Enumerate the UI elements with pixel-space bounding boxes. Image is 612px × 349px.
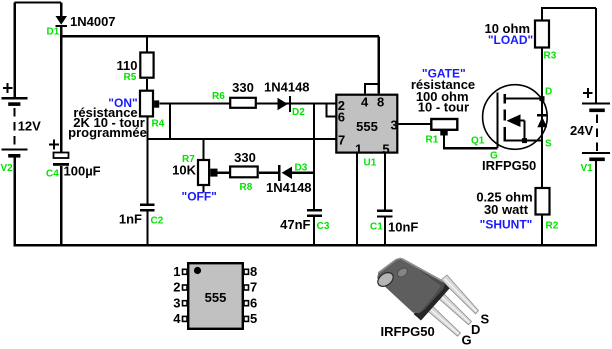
svg-text:R3: R3 [544, 51, 557, 62]
svg-text:3: 3 [173, 295, 180, 310]
svg-text:C1: C1 [370, 222, 383, 233]
wire R5 top lead [146, 36, 148, 52]
svg-text:"SHUNT": "SHUNT" [480, 218, 533, 232]
svg-text:1: 1 [355, 142, 362, 157]
capacitor C2 1nF [140, 205, 154, 211]
diode D3 1N4148 [279, 165, 292, 181]
wire C1 bottom to rail [384, 218, 386, 245]
wire V1 bottom lead [595, 161, 597, 245]
svg-text:555: 555 [356, 119, 378, 134]
resistor R6 330 [230, 98, 256, 108]
wire top-left corner V2 to D1 [15, 3, 62, 99]
svg-text:24V: 24V [570, 123, 593, 138]
wire C4 bottom to ground rail [60, 166, 62, 245]
transistor Q1 IRFPG50 mosfet symbol [483, 85, 548, 150]
resistor R8 330 [230, 167, 258, 178]
svg-text:100µF: 100µF [64, 164, 101, 179]
op-amp U1 555 IC body [336, 95, 397, 153]
svg-text:D: D [471, 322, 480, 337]
wire 555 pin5 to C1 [384, 154, 386, 210]
svg-text:3: 3 [391, 118, 398, 133]
resistor R2 SHUNT [536, 188, 550, 215]
potentiometer R7 10K "OFF" [198, 160, 218, 185]
capacitor C4 100uF polarized [49, 140, 69, 166]
svg-text:6: 6 [338, 110, 345, 125]
wire junction vertical x170 [169, 104, 171, 140]
svg-text:R6: R6 [212, 91, 225, 102]
svg-text:V2: V2 [1, 163, 14, 174]
svg-text:8: 8 [377, 95, 384, 110]
svg-text:2: 2 [173, 280, 180, 295]
svg-text:110: 110 [117, 58, 138, 73]
svg-text:V1: V1 [581, 163, 594, 174]
wire R7 wiper to R8 [218, 172, 230, 174]
wire R4 wiper to 555 pin 2 (y103) [159, 102, 335, 104]
svg-text:7: 7 [250, 280, 257, 295]
svg-text:R1: R1 [426, 135, 439, 146]
potentiometer R4 "ON" 2K [140, 91, 159, 117]
svg-text:C2: C2 [151, 216, 164, 227]
svg-text:7: 7 [338, 133, 345, 148]
svg-text:Q1: Q1 [471, 136, 485, 147]
diode D2 1N4148 [278, 96, 291, 112]
wire V2 bottom lead [14, 158, 16, 245]
wire R7 bottom open stub [203, 186, 205, 193]
wire R4 bottom lead down to C2 [146, 117, 148, 204]
svg-text:1: 1 [173, 264, 180, 279]
svg-text:4: 4 [361, 95, 369, 110]
wire R8 to D3 cathode [259, 172, 279, 174]
IRFPG50 package drawing [375, 258, 478, 336]
wire source to R2 [541, 141, 543, 188]
wire C3 bottom to rail [313, 217, 315, 245]
svg-text:S: S [481, 312, 490, 327]
resistor R5 110 [140, 53, 153, 78]
svg-text:D: D [545, 87, 552, 98]
svg-text:10nF: 10nF [388, 220, 418, 235]
svg-text:R2: R2 [546, 221, 559, 232]
svg-text:C4: C4 [46, 169, 59, 180]
wire 555 pin4/pin8 bracket to top rail [365, 36, 379, 93]
svg-text:R4: R4 [152, 119, 165, 130]
wire R3 bottom lead to drain [541, 48, 543, 99]
wire R2 bottom to rail [541, 215, 543, 246]
svg-text:6: 6 [250, 295, 257, 310]
wire R7 top lead [203, 139, 205, 160]
svg-text:8: 8 [250, 264, 257, 279]
wire R5 to R4 link [146, 79, 148, 91]
svg-text:IRFPG50: IRFPG50 [482, 158, 536, 173]
svg-text:30 watt: 30 watt [484, 202, 529, 217]
wire 555 pin3 to R1 [398, 123, 431, 125]
battery V2 12V [2, 83, 28, 157]
svg-text:S: S [545, 139, 552, 150]
svg-text:U1: U1 [364, 158, 377, 169]
svg-text:1nF: 1nF [119, 212, 142, 227]
wire horizontal y139 R4-bottom to 555 pin 7 [148, 138, 336, 140]
capacitor C3 47nF [307, 210, 322, 216]
wire top rail y36 from D1 to 555 pins 4/8 [61, 35, 379, 37]
resistor R3 LOAD [535, 21, 549, 48]
svg-text:12V: 12V [18, 119, 41, 134]
svg-text:G: G [462, 333, 472, 348]
battery V1 24V [582, 88, 610, 161]
wire bottom ground rail [14, 244, 597, 247]
svg-text:47nF: 47nF [280, 217, 310, 232]
555 DIP package drawing [183, 263, 249, 329]
svg-text:R8: R8 [240, 182, 253, 193]
svg-text:5: 5 [382, 142, 389, 157]
wire 555 pin1 to rail [356, 154, 358, 245]
diode D1 1N4007 [56, 16, 68, 26]
potentiometer R1 GATE [431, 119, 457, 136]
wire D1 cathode down to C4 [60, 27, 62, 153]
svg-text:C3: C3 [317, 221, 330, 232]
capacitor C1 10nF [377, 211, 393, 217]
wire R1 wiper down and right to gate [444, 136, 498, 149]
svg-text:R5: R5 [124, 72, 137, 83]
wire 555 pin2/pin6 bracket [327, 104, 336, 117]
svg-text:1N4007: 1N4007 [70, 14, 116, 29]
svg-text:4: 4 [173, 311, 181, 326]
svg-text:330: 330 [232, 80, 254, 95]
svg-text:330: 330 [234, 150, 256, 165]
svg-text:D1: D1 [47, 27, 60, 38]
wire C2 bottom to rail [146, 212, 148, 246]
wire R3 top lead and top-right rail [542, 8, 596, 104]
svg-text:555: 555 [205, 290, 227, 305]
svg-text:10K: 10K [172, 163, 196, 178]
wire D3 anode to node x313.7 [292, 172, 314, 174]
svg-text:1N4148: 1N4148 [266, 180, 312, 195]
svg-text:1N4148: 1N4148 [264, 80, 310, 95]
svg-text:IRFPG50: IRFPG50 [381, 324, 435, 339]
svg-text:"OFF": "OFF" [182, 190, 217, 204]
svg-text:D3: D3 [295, 163, 308, 174]
svg-text:10 - tour: 10 - tour [418, 100, 469, 115]
svg-text:programmée: programmée [68, 125, 147, 140]
svg-text:5: 5 [250, 311, 257, 326]
wire D1 anode from top [60, 3, 62, 17]
svg-text:"LOAD": "LOAD" [488, 33, 533, 47]
wire vertical x313.7 from y103 down to C3 [313, 104, 315, 210]
svg-text:D2: D2 [292, 107, 305, 118]
